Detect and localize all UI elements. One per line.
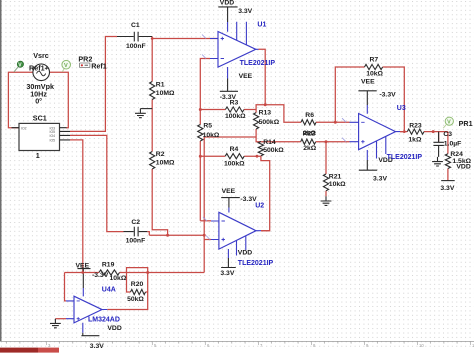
svg-text:3.3V: 3.3V — [373, 176, 387, 183]
svg-text:U4A: U4A — [102, 287, 116, 294]
junction R3 left / node A — [199, 108, 202, 111]
resistor R4 — [225, 154, 244, 159]
wire U1 minus input down long vertical (node A) — [200, 59, 210, 221]
wire U2 output — [261, 230, 270, 232]
wire U4A plus input from ground — [55, 318, 66, 320]
svg-text:R13: R13 — [259, 110, 272, 117]
wire C2 right to junction row — [147, 232, 204, 236]
svg-text:R21: R21 — [329, 173, 342, 180]
junction R7 / U3 minus node — [334, 121, 337, 124]
svg-text:-3.3V: -3.3V — [220, 94, 237, 101]
svg-text:500kΩ: 500kΩ — [259, 119, 280, 126]
resistor R5 — [198, 125, 203, 142]
svg-text:C2: C2 — [131, 219, 140, 226]
wire R14 bottom hook to U2 output — [261, 156, 270, 231]
svg-text:10kΩ: 10kΩ — [203, 132, 220, 139]
wire U2 plus input lead — [204, 239, 211, 241]
wire U3 output to R23 — [400, 131, 448, 133]
svg-text:1kΩ: 1kΩ — [408, 137, 422, 144]
junction C2-R2 node — [166, 234, 169, 237]
svg-text:U3: U3 — [397, 105, 406, 112]
wire SC1 pin4 down to R19 row — [70, 140, 83, 273]
svg-text:R2: R2 — [156, 151, 165, 158]
svg-text:R14: R14 — [263, 139, 276, 146]
op-amp U3 TLE2021IP — [359, 114, 396, 150]
ground R21 — [321, 196, 332, 205]
VDD rail below R24 — [441, 180, 455, 182]
svg-text:-3.3V: -3.3V — [379, 92, 396, 99]
svg-text:C1: C1 — [131, 22, 140, 29]
svg-text:LM324AD: LM324AD — [88, 317, 120, 324]
svg-text:R4: R4 — [230, 146, 239, 153]
wire R13 top / U1 output node — [256, 105, 301, 123]
wire Vsrc right down to SC1 pin IO3 — [49, 72, 68, 127]
wire C3 top lead — [438, 132, 440, 142]
op-amp U2 TLE2021IP — [219, 212, 256, 249]
svg-text:R19: R19 — [102, 262, 115, 269]
resistor R24 — [445, 154, 450, 169]
svg-text:10MΩ: 10MΩ — [156, 90, 175, 97]
svg-text:100nF: 100nF — [126, 43, 146, 50]
svg-text:10kΩ: 10kΩ — [110, 275, 127, 282]
capacitor C1 — [117, 32, 152, 42]
svg-text:R22: R22 — [303, 130, 316, 137]
bottom ruler — [0, 349, 474, 353]
sheet border — [0, 0, 2, 341]
wire SC1 pin3 down to C2 — [70, 135, 124, 231]
wire bump over row at R20 — [127, 268, 148, 273]
svg-text:SC1: SC1 — [33, 113, 47, 122]
op-amp U1 TLE2021IP — [218, 32, 256, 68]
VEE rail U4A top — [78, 269, 91, 288]
VDD rail U2 bottom — [221, 258, 236, 268]
wire R19 row — [65, 272, 205, 274]
VEE rail U3 top — [358, 91, 376, 105]
resistor R23 — [407, 129, 424, 134]
svg-text:100kΩ: 100kΩ — [224, 161, 245, 168]
svg-text:VEE: VEE — [222, 188, 236, 195]
svg-text:VDD: VDD — [220, 0, 234, 7]
svg-text:10: 10 — [419, 343, 424, 348]
wire node B vertical down to R19 row — [203, 137, 205, 273]
svg-text:10MΩ: 10MΩ — [156, 160, 175, 167]
svg-text:100nF: 100nF — [126, 238, 146, 245]
svg-text:VEE: VEE — [76, 262, 90, 269]
svg-text:U1: U1 — [257, 21, 266, 28]
junction R5-R4 node — [199, 155, 202, 158]
wire U4A minus input — [65, 273, 67, 301]
svg-text:VDD: VDD — [107, 325, 121, 332]
wire R7 feedback loop — [335, 67, 404, 132]
svg-text:R23: R23 — [409, 122, 422, 129]
svg-text:50kΩ: 50kΩ — [127, 296, 144, 303]
svg-text:2kΩ: 2kΩ — [303, 145, 317, 152]
svg-text:10kΩ: 10kΩ — [329, 181, 346, 188]
ground U4A plus input — [50, 319, 61, 328]
resistor R6 — [301, 120, 316, 125]
svg-text:Ref1: Ref1 — [29, 64, 45, 73]
wire R4 row — [200, 155, 261, 157]
svg-text:100kΩ: 100kΩ — [225, 113, 246, 120]
wire SC1 pin2 up to C1 — [70, 37, 117, 132]
wire R13 bottom to node B row — [204, 129, 261, 142]
svg-text:1: 1 — [36, 151, 40, 160]
VEE rail U2 top — [221, 198, 240, 208]
wire R20 right to U4A output feedback — [107, 273, 147, 310]
probe PR1 — [443, 125, 446, 128]
wire R6 right to U3 minus input — [316, 121, 350, 123]
capacitor C3 — [433, 132, 444, 157]
svg-text:R7: R7 — [370, 57, 379, 64]
svg-text:1.0µF: 1.0µF — [444, 140, 462, 147]
op-amp U4A LM324AD — [74, 296, 102, 323]
svg-text:V: V — [447, 120, 451, 126]
svg-text:R6: R6 — [305, 112, 314, 119]
VEE rail U1 bottom — [220, 79, 238, 92]
svg-text:TLE2021IP: TLE2021IP — [387, 154, 423, 161]
svg-text:TLE2021IP: TLE2021IP — [240, 60, 276, 67]
junction node B tap — [203, 234, 206, 237]
probe PR2 icon — [79, 63, 90, 68]
svg-text:3.3V: 3.3V — [440, 185, 454, 192]
resistor R1 — [150, 82, 155, 100]
svg-text:3.3V: 3.3V — [220, 270, 234, 277]
svg-text:Ref1: Ref1 — [91, 61, 107, 70]
svg-text:V: V — [64, 63, 68, 69]
svg-text:IO5: IO5 — [50, 139, 56, 143]
junction R23-C3 output node — [432, 130, 435, 133]
resistor R20 — [131, 289, 146, 294]
svg-text:VDD: VDD — [238, 249, 252, 256]
ground near R1 — [140, 108, 152, 110]
svg-text:-3.3V: -3.3V — [92, 272, 109, 279]
svg-text:VEE: VEE — [361, 78, 375, 85]
ground C3 — [432, 157, 443, 166]
svg-text:IO4: IO4 — [50, 134, 56, 138]
wire R1 bottom to R2 top — [151, 100, 153, 152]
VDD rail U4A bottom — [81, 333, 99, 336]
svg-text:U2: U2 — [255, 203, 264, 210]
VDD rail U3 bottom — [359, 160, 377, 170]
wire U2 minus input lead — [200, 220, 211, 222]
resistor R13 — [254, 113, 259, 129]
scrollbar red bar — [0, 348, 38, 353]
svg-text:0°: 0° — [35, 97, 42, 106]
svg-text:IO2: IO2 — [21, 126, 27, 130]
resistor R21 — [323, 174, 328, 191]
wire R24 top lead — [447, 132, 449, 181]
subcircuit SC1 — [19, 123, 60, 150]
resistor R19 — [99, 270, 120, 275]
svg-text:PR1: PR1 — [459, 119, 473, 128]
wire R14 top row to R22 and U3 plus input — [261, 141, 350, 143]
wire R2 bottom jog to C2 node — [152, 169, 167, 235]
svg-text:VDD: VDD — [456, 163, 470, 170]
resistor R2 — [150, 152, 155, 170]
svg-text:R1: R1 — [156, 81, 165, 88]
svg-text:3.3V: 3.3V — [238, 8, 252, 15]
resistor R14 — [258, 142, 263, 156]
svg-text:Vsrc: Vsrc — [33, 51, 49, 60]
capacitor C2 — [124, 227, 148, 237]
svg-text:C3: C3 — [443, 131, 452, 138]
svg-text:R20: R20 — [131, 281, 144, 288]
wire R20 left lead drop — [127, 273, 131, 293]
svg-text:TLE2021IP: TLE2021IP — [238, 260, 274, 267]
wire C1 right to U1 + input and down to R1 — [152, 37, 218, 82]
source Vsrc — [33, 64, 50, 81]
wire R21 to plus row — [325, 142, 327, 197]
wire U1 output — [259, 49, 266, 105]
wire Vsrc left to SC1 IO2 — [8, 72, 33, 127]
svg-text:500kΩ: 500kΩ — [263, 147, 284, 154]
wire R3 row — [200, 109, 256, 111]
resistor R3 — [225, 107, 244, 112]
svg-text:R5: R5 — [203, 123, 212, 130]
probe PR2 circle — [62, 68, 64, 72]
resistor R7 — [365, 64, 383, 69]
VDD rail U1 — [218, 7, 237, 22]
resistor R22 body — [301, 139, 316, 144]
probe green V at Vsrc left — [14, 67, 19, 72]
junction R21 top node — [325, 140, 328, 143]
svg-text:10kΩ: 10kΩ — [366, 71, 383, 78]
junction U1 output node — [264, 103, 267, 106]
svg-text:VEE: VEE — [239, 73, 253, 80]
